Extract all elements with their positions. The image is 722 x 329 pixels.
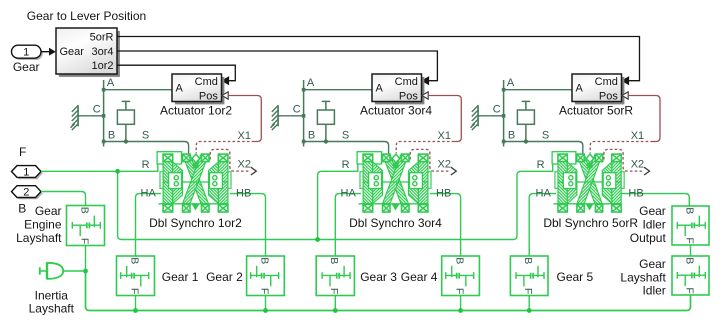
svg-text:Gear: Gear: [13, 60, 40, 74]
svg-text:Gear 4: Gear 4: [401, 270, 438, 284]
svg-text:Gear: Gear: [639, 204, 666, 218]
svg-text:Actuator 5orR: Actuator 5orR: [559, 104, 633, 118]
svg-text:B: B: [522, 257, 534, 264]
svg-text:S: S: [142, 130, 149, 142]
svg-text:X1: X1: [631, 130, 644, 142]
svg-text:X1: X1: [238, 130, 251, 142]
svg-text:B: B: [78, 207, 90, 214]
svg-text:X2: X2: [631, 158, 644, 170]
svg-text:X1: X1: [438, 130, 451, 142]
svg-text:B: B: [258, 257, 270, 264]
svg-text:F: F: [19, 145, 26, 159]
svg-text:B: B: [108, 130, 115, 142]
svg-text:Inertia: Inertia: [35, 288, 69, 302]
svg-text:F: F: [78, 238, 90, 244]
svg-text:X2: X2: [238, 158, 251, 170]
svg-text:1: 1: [23, 167, 29, 179]
svg-text:Output: Output: [630, 231, 667, 245]
svg-text:F: F: [453, 288, 465, 294]
svg-text:Pos: Pos: [599, 91, 618, 103]
svg-text:F: F: [683, 287, 695, 293]
svg-text:F: F: [522, 288, 534, 294]
svg-text:Gear: Gear: [35, 204, 62, 218]
svg-text:A: A: [176, 83, 184, 95]
svg-text:F: F: [258, 288, 270, 294]
svg-text:A: A: [576, 83, 584, 95]
svg-text:1or2: 1or2: [91, 60, 113, 72]
svg-text:B: B: [683, 207, 695, 214]
svg-text:Dbl Synchro 5orR: Dbl Synchro 5orR: [543, 216, 638, 230]
svg-text:Engine: Engine: [24, 218, 62, 232]
svg-text:Actuator 3or4: Actuator 3or4: [360, 104, 432, 118]
svg-text:2: 2: [23, 187, 29, 199]
svg-text:B: B: [128, 257, 140, 264]
svg-text:Dbl Synchro 3or4: Dbl Synchro 3or4: [349, 216, 442, 230]
svg-text:HB: HB: [628, 188, 643, 200]
svg-text:B: B: [683, 257, 695, 264]
svg-text:R: R: [342, 159, 350, 171]
svg-text:C: C: [293, 103, 301, 115]
svg-text:X2: X2: [438, 158, 451, 170]
svg-text:Cmd: Cmd: [395, 76, 418, 88]
svg-text:HA: HA: [141, 188, 157, 200]
svg-text:B: B: [328, 257, 340, 264]
svg-text:S: S: [342, 130, 349, 142]
svg-text:Layshaft: Layshaft: [16, 231, 62, 245]
svg-text:B: B: [308, 130, 315, 142]
svg-text:3or4: 3or4: [91, 46, 113, 58]
svg-text:Layshaft: Layshaft: [29, 302, 75, 316]
svg-text:Gear 2: Gear 2: [206, 270, 243, 284]
svg-text:C: C: [93, 103, 101, 115]
svg-text:Pos: Pos: [399, 91, 418, 103]
svg-text:Gear 1: Gear 1: [162, 270, 199, 284]
svg-text:HB: HB: [436, 188, 451, 200]
svg-text:Gear: Gear: [639, 257, 666, 271]
svg-text:Idler: Idler: [642, 284, 665, 298]
svg-text:A: A: [107, 77, 115, 89]
svg-text:A: A: [307, 77, 315, 89]
svg-text:S: S: [542, 130, 549, 142]
svg-text:F: F: [328, 288, 340, 294]
svg-text:Gear 5: Gear 5: [557, 270, 594, 284]
svg-text:HB: HB: [236, 188, 251, 200]
svg-text:A: A: [376, 83, 384, 95]
svg-text:A: A: [507, 77, 515, 89]
svg-text:Layshaft: Layshaft: [620, 270, 666, 284]
svg-text:Gear to Lever Position: Gear to Lever Position: [27, 9, 146, 23]
svg-text:C: C: [493, 103, 501, 115]
svg-text:Cmd: Cmd: [195, 76, 218, 88]
svg-text:Gear: Gear: [60, 46, 85, 58]
svg-text:Pos: Pos: [199, 91, 218, 103]
svg-text:R: R: [142, 159, 150, 171]
svg-text:Cmd: Cmd: [595, 76, 618, 88]
svg-text:B: B: [453, 257, 465, 264]
svg-text:1: 1: [23, 47, 29, 59]
svg-text:HA: HA: [536, 188, 552, 200]
svg-text:F: F: [128, 288, 140, 294]
svg-text:Actuator 1or2: Actuator 1or2: [160, 104, 232, 118]
svg-text:HA: HA: [341, 188, 357, 200]
svg-text:5orR: 5orR: [90, 31, 114, 43]
svg-text:F: F: [683, 237, 695, 243]
svg-text:R: R: [537, 159, 545, 171]
svg-text:Idler: Idler: [642, 218, 665, 232]
svg-text:B: B: [18, 201, 26, 215]
svg-text:Dbl Synchro 1or2: Dbl Synchro 1or2: [149, 216, 242, 230]
svg-text:B: B: [508, 130, 515, 142]
svg-text:Gear 3: Gear 3: [360, 270, 397, 284]
